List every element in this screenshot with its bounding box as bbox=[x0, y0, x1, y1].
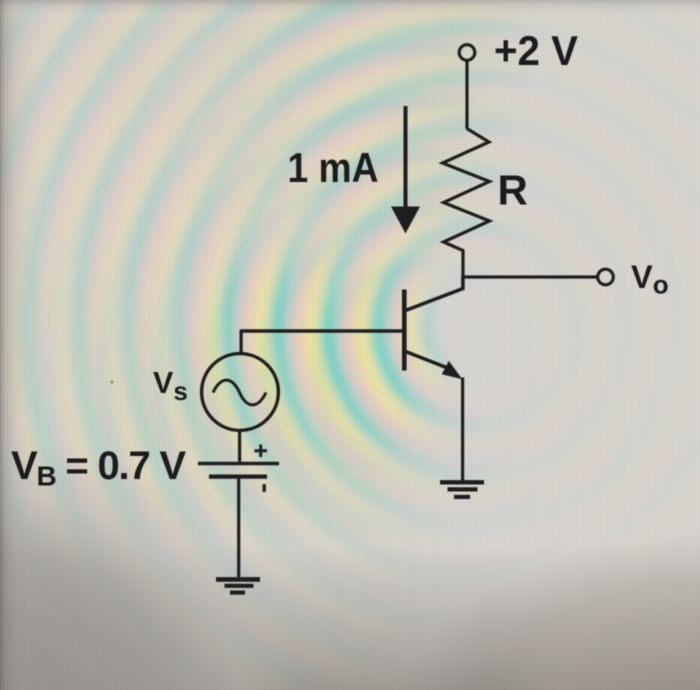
transistor Q1 collector bbox=[406, 276, 463, 311]
battery plus sign bbox=[255, 445, 268, 458]
source Vs sine bbox=[213, 380, 266, 405]
source Vs circle bbox=[202, 354, 279, 431]
terminal +2V bbox=[459, 45, 475, 61]
wire Vs to battery bbox=[238, 431, 241, 462]
ground battery bbox=[216, 577, 260, 582]
transistor Q1 emitter bbox=[406, 352, 450, 369]
battery VB plate top bbox=[198, 462, 279, 465]
battery minus tick bbox=[263, 484, 266, 492]
svg-text:+2 V: +2 V bbox=[494, 27, 578, 74]
wire collector node to Vo bbox=[463, 275, 598, 278]
resistor R bbox=[443, 129, 490, 277]
wire supply to resistor bbox=[465, 61, 468, 129]
ground emitter bbox=[440, 480, 484, 484]
current arrowhead bbox=[391, 207, 420, 234]
svg-text:1 mA: 1 mA bbox=[288, 144, 379, 191]
transistor Q1 base bar bbox=[402, 290, 407, 371]
transistor emitter arrowhead bbox=[442, 361, 463, 379]
battery VB plate bottom bbox=[209, 475, 267, 479]
wire emitter to ground bbox=[461, 378, 464, 483]
current arrow 1 mA bbox=[404, 106, 408, 210]
terminal Vo bbox=[598, 269, 614, 285]
wire battery to ground bbox=[237, 479, 240, 577]
wire base corner to Vs bbox=[240, 330, 243, 354]
svg-text:VB = 0.7 V: VB = 0.7 V bbox=[11, 444, 186, 492]
svg-text:Vs: Vs bbox=[153, 366, 188, 406]
svg-text:Vo: Vo bbox=[631, 259, 669, 300]
wire base bbox=[241, 329, 405, 333]
svg-text:R: R bbox=[498, 166, 528, 213]
speck dot bbox=[111, 381, 114, 384]
